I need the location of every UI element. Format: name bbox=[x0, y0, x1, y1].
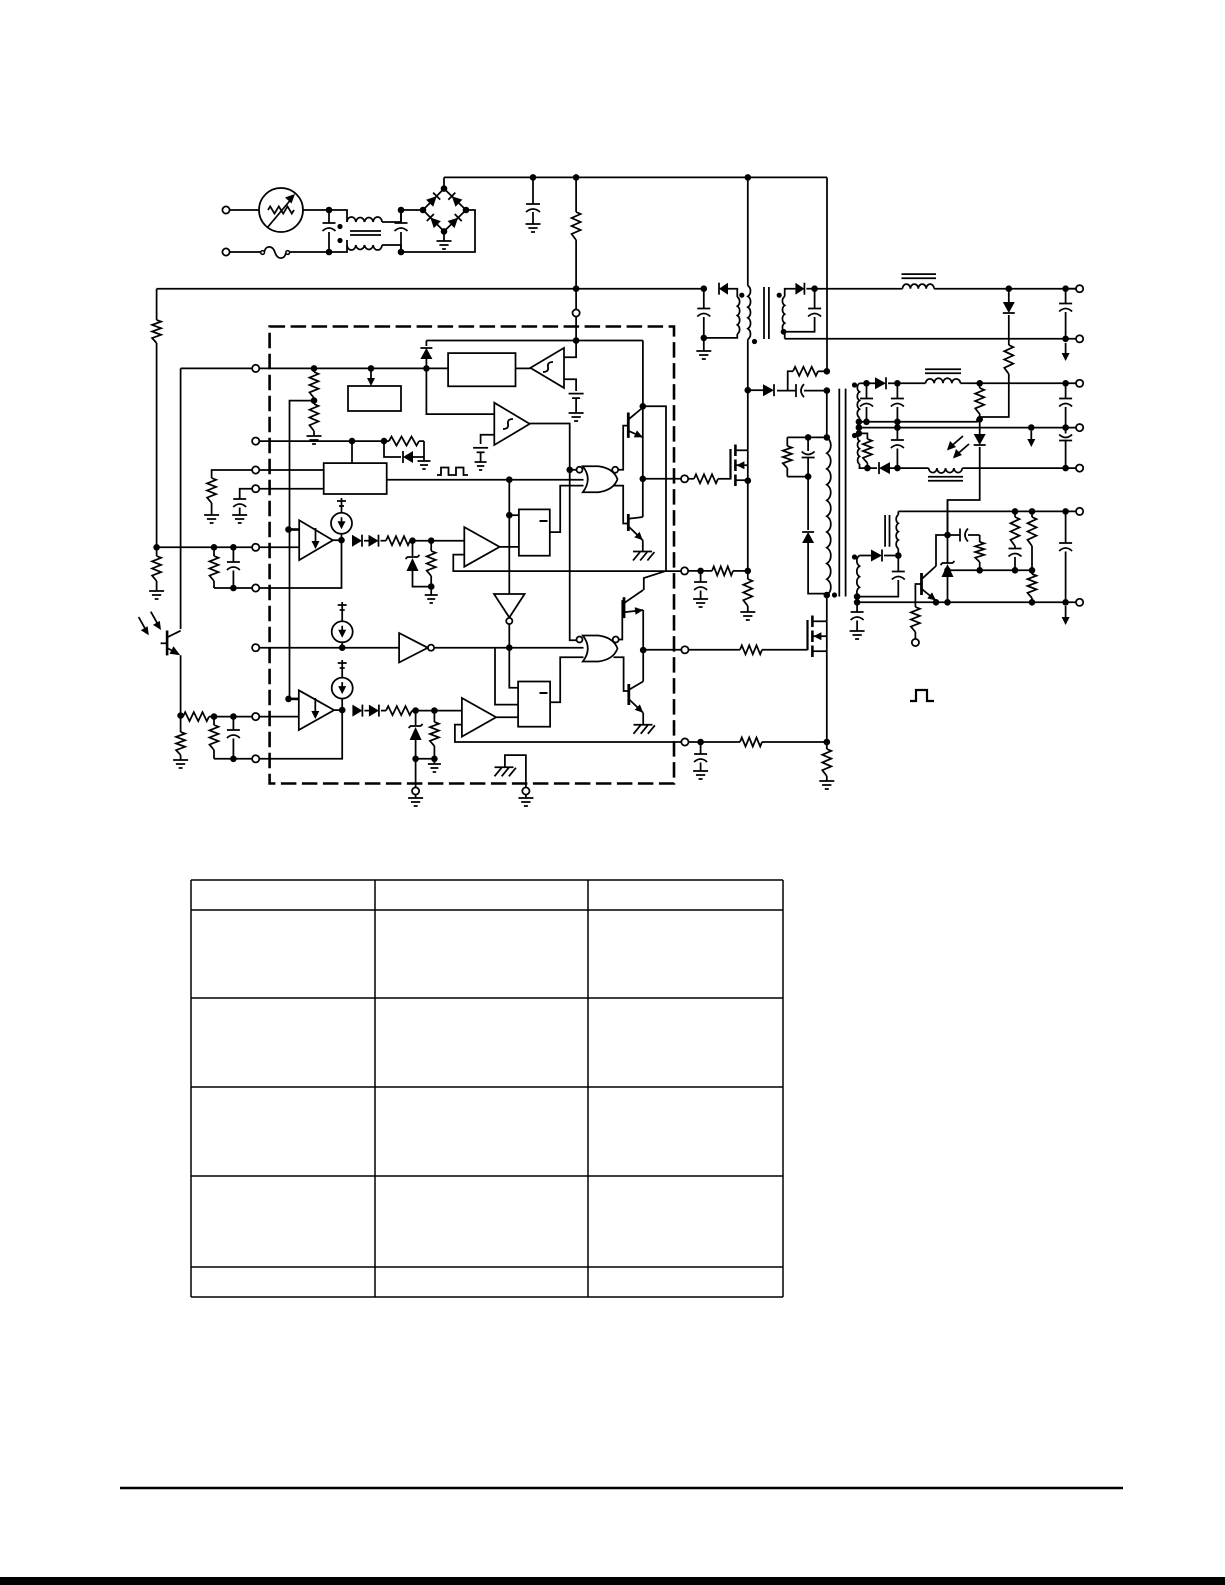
node ramp2 gnd bbox=[412, 756, 437, 763]
resistor R18 bbox=[181, 712, 214, 721]
node D11-C11 bbox=[890, 465, 901, 472]
block oscillator bbox=[324, 463, 387, 494]
wire U9 out bbox=[509, 624, 518, 687]
chassis ground symbol bbox=[495, 767, 516, 776]
transistor Q2 bbox=[628, 514, 643, 540]
MOSFET M2 bbox=[808, 595, 827, 742]
internal resistor R24 bbox=[307, 401, 322, 444]
inverter U9 bbox=[494, 594, 525, 624]
pin RT bbox=[252, 466, 259, 473]
T2 secondary winding 2 bbox=[777, 293, 787, 335]
diode D21 bbox=[364, 705, 379, 717]
zener D22 bbox=[409, 711, 423, 759]
wire fb row bbox=[948, 569, 1033, 571]
wire bottom to choke bbox=[329, 240, 347, 252]
node out3-C12 bbox=[1062, 465, 1069, 472]
node OUT2 bbox=[640, 647, 647, 654]
transistor Q3 bbox=[624, 590, 643, 618]
terminal out4+ bbox=[1076, 508, 1083, 515]
node IN2-R22 bbox=[211, 713, 218, 720]
capacitor C5 bbox=[1059, 289, 1072, 339]
wire signal gnd bracket bbox=[505, 755, 526, 787]
wire standby return rail bbox=[785, 338, 1080, 340]
gate wire M1 bbox=[688, 474, 730, 483]
terminal out3- bbox=[1076, 465, 1083, 472]
pin IN2+ bbox=[252, 713, 259, 720]
node clock-latch1 bbox=[506, 512, 513, 519]
wire IN1 line bbox=[157, 546, 253, 548]
node bus-aux bbox=[745, 174, 752, 181]
T2 primary winding bbox=[748, 177, 757, 390]
node return-C5 bbox=[1062, 336, 1069, 343]
transistor Q4 bbox=[629, 681, 643, 712]
node IN1-R21 bbox=[211, 544, 218, 551]
wire latch1 clk in bbox=[509, 514, 519, 516]
node sync-osc bbox=[349, 438, 356, 445]
node ramp2-R29 bbox=[431, 707, 438, 714]
pin SGND bbox=[522, 787, 529, 794]
wire schmitt out bbox=[530, 424, 577, 641]
bubble U13 in bbox=[577, 637, 583, 643]
node secA-C8 bbox=[863, 380, 870, 387]
varistor RV1 bbox=[259, 188, 303, 232]
clamp capacitor C7 bbox=[802, 437, 815, 476]
sense resistor R16 bbox=[819, 742, 834, 789]
standby capacitor C4 bbox=[785, 289, 821, 332]
node snubber top bbox=[824, 368, 831, 375]
pulse waveform bbox=[910, 690, 934, 701]
block UVLO bbox=[448, 353, 515, 386]
node U4 out bbox=[333, 537, 345, 544]
capacitor C11 bbox=[891, 424, 904, 468]
wire COMP1 line bbox=[214, 587, 252, 589]
resistor R9 bbox=[975, 535, 984, 574]
node opto emitter bbox=[177, 712, 184, 719]
node VIN-ref bbox=[368, 365, 375, 372]
filter capacitor C17 bbox=[850, 602, 865, 639]
wire osc top bbox=[351, 441, 353, 463]
node return-gnd bbox=[1028, 424, 1035, 431]
wire out4 rail bbox=[898, 510, 1079, 512]
wire DC bus rail bbox=[444, 176, 827, 178]
arrow into reference bbox=[367, 371, 375, 386]
schmitt trigger U3 bbox=[494, 403, 529, 445]
node enable gate1 bbox=[566, 467, 576, 474]
arrow standby return bbox=[1062, 343, 1070, 361]
wire VIN pin into IC bbox=[575, 317, 577, 341]
T1 secondary B bbox=[852, 554, 860, 598]
capacitor C8 bbox=[860, 383, 873, 420]
wire U7 out top bbox=[619, 426, 629, 470]
diode D8 bbox=[745, 384, 775, 396]
ground ramp2 bbox=[428, 759, 441, 772]
IC U1 boundary bbox=[270, 327, 674, 784]
output capacitor C16 bbox=[1059, 508, 1072, 605]
wire opto collector bbox=[180, 368, 182, 629]
startup resistor R2 bbox=[572, 177, 581, 288]
wire U11 out bbox=[496, 716, 518, 718]
LED arrows bbox=[947, 436, 969, 459]
node totem supply bbox=[640, 341, 647, 410]
wire U4 in- bbox=[259, 546, 299, 548]
wire secB bottom bbox=[854, 593, 861, 602]
ground driver2 bbox=[634, 713, 655, 734]
optocoupler transistor Q6 bbox=[161, 631, 181, 716]
wire clock down2 bbox=[508, 515, 510, 594]
capacitor C9 bbox=[891, 383, 904, 420]
node M1 source bbox=[745, 477, 752, 574]
wire out4 return rail bbox=[854, 599, 1080, 606]
bulk capacitor C2 bbox=[526, 177, 541, 232]
T1 secondary A2 bbox=[852, 433, 860, 464]
wire inv branch bbox=[495, 648, 518, 705]
inductor L6 bbox=[896, 511, 898, 555]
resistor R4 bbox=[980, 315, 1014, 419]
node R27 bottom bbox=[428, 583, 435, 590]
current source I2 bbox=[332, 602, 353, 648]
wire COMP1 internal bbox=[259, 540, 341, 588]
sense filter R15 bbox=[688, 566, 748, 575]
node VIN-divider bbox=[311, 365, 318, 372]
pin CS1 bbox=[681, 567, 688, 574]
diode D11 bbox=[879, 462, 890, 474]
inductor L3 bbox=[902, 274, 937, 289]
pin IN1+ bbox=[252, 544, 259, 551]
CS comparator U5 bbox=[464, 527, 499, 567]
ground ramp1 bbox=[425, 587, 438, 603]
node clamp top bbox=[787, 434, 830, 441]
bridge diode D3 bbox=[427, 214, 441, 228]
gate U7 bbox=[583, 466, 618, 492]
L6 core bbox=[885, 515, 889, 547]
wire COMP2 line bbox=[214, 758, 252, 760]
wire Q3 emitter bbox=[642, 610, 644, 650]
diode D5 bbox=[719, 283, 728, 295]
pin CT bbox=[252, 485, 259, 492]
bridge rectifier BR1 bbox=[420, 185, 470, 234]
bubble U13 out bbox=[613, 637, 619, 643]
optocoupler LED D12 bbox=[948, 419, 986, 535]
node clock-DT bbox=[506, 644, 513, 651]
wire VCC rail bbox=[157, 288, 704, 290]
wire SYNC line bbox=[259, 440, 384, 442]
T1 core bbox=[839, 389, 845, 597]
node snubber bottom bbox=[824, 387, 831, 394]
diode D13 bbox=[871, 550, 898, 562]
node startup-UVLO bbox=[573, 337, 580, 344]
wire varistor to X-cap bbox=[303, 209, 329, 211]
wire cap return link bbox=[859, 419, 977, 426]
diode D7 bbox=[1003, 289, 1015, 313]
reference battery B1 bbox=[569, 394, 584, 421]
footer rule bbox=[120, 1487, 1123, 1489]
node VIN-D15 bbox=[423, 365, 430, 372]
T2 core bbox=[764, 287, 769, 339]
wire standby rail bbox=[815, 288, 1080, 290]
capacitor C10 bbox=[1059, 383, 1072, 427]
resistor R28 bbox=[381, 706, 435, 715]
capacitor C14 bbox=[948, 529, 980, 542]
wire center tap bbox=[856, 418, 863, 434]
gate wire M2 bbox=[689, 645, 808, 654]
node IN2-C21 bbox=[230, 713, 237, 720]
node clamp bottom bbox=[787, 473, 811, 480]
wire CX2 to bridge bbox=[401, 209, 423, 211]
zener D19 bbox=[406, 541, 432, 587]
node R7 bottom bbox=[976, 416, 983, 423]
diode D10 bbox=[867, 377, 898, 389]
node out2-C10 bbox=[1062, 380, 1069, 387]
pin DT bbox=[252, 644, 259, 651]
divider resistor R11 bbox=[1011, 508, 1020, 548]
resistor RT external bbox=[204, 470, 252, 523]
comparator U4 bbox=[299, 520, 333, 560]
inductor L5 bbox=[928, 468, 963, 481]
node VCC-D5 bbox=[701, 285, 708, 292]
ground PGND bbox=[408, 795, 423, 806]
wire U10 in- bbox=[259, 716, 299, 718]
base resistor R10 bbox=[911, 584, 922, 639]
wire supply branch bbox=[643, 406, 666, 590]
clock waveform bbox=[437, 468, 468, 476]
wire inverter out bbox=[434, 647, 583, 649]
resistor R29 bbox=[430, 711, 439, 759]
fuse F1 bbox=[230, 247, 329, 258]
wire return rail bbox=[859, 427, 1080, 429]
T2 secondary winding 1 bbox=[737, 293, 744, 334]
wire U2 input top bbox=[564, 341, 576, 358]
wire opto chain down bbox=[947, 500, 949, 535]
zener D14 bbox=[941, 535, 955, 606]
resistor R7 bbox=[975, 383, 984, 419]
terminal out2 return bbox=[1076, 424, 1083, 431]
diode D20 bbox=[352, 705, 362, 717]
wire U2 input bottom bbox=[564, 379, 576, 391]
divider resistor R12 bbox=[1028, 508, 1037, 573]
node divider mid bbox=[311, 397, 318, 404]
node bus-C2 bbox=[530, 174, 537, 181]
bottom bar bbox=[0, 1577, 1225, 1585]
pin PGND bbox=[412, 787, 419, 794]
diode D17 bbox=[352, 535, 362, 547]
arrow out4 return bbox=[1062, 606, 1070, 625]
wire U13 out bottom bbox=[614, 657, 629, 691]
X-capacitor CX1 bbox=[323, 207, 336, 256]
wire U13 out top bbox=[619, 601, 624, 640]
wire COMP2 internal bbox=[259, 710, 342, 759]
pin OUT2 bbox=[681, 646, 688, 653]
wire bus to T1 bbox=[826, 177, 828, 371]
T1 secondary A1 bbox=[852, 382, 860, 417]
comparator U10 bbox=[299, 690, 334, 730]
pass transistor Q5 bbox=[922, 535, 948, 606]
pin COMP2 bbox=[252, 755, 259, 762]
wire schmitt ref bbox=[481, 435, 495, 444]
wire clock down bbox=[508, 480, 510, 516]
node zener-fb bbox=[944, 567, 951, 574]
wire bottom to bridge bbox=[401, 210, 475, 252]
sense filter R17 bbox=[689, 738, 827, 747]
wire to CS comparator bbox=[431, 540, 464, 542]
node ramp2 bbox=[412, 707, 419, 714]
capacitor C20 bbox=[227, 547, 240, 591]
terminal out2+ bbox=[1076, 380, 1083, 387]
current source I1 bbox=[331, 498, 352, 540]
reference battery B2 bbox=[473, 448, 488, 470]
wire secB top bbox=[860, 555, 872, 557]
node ramp1 bbox=[409, 537, 416, 544]
node standby-D7 bbox=[1006, 285, 1013, 292]
node FB divider bbox=[153, 544, 160, 551]
wire U5 out bbox=[500, 546, 519, 548]
node OUT1 bbox=[640, 476, 647, 483]
terminal out4- bbox=[1076, 599, 1083, 606]
node sense-C18 bbox=[697, 568, 704, 575]
common-mode choke L1 bbox=[337, 210, 401, 252]
resistor R26 bbox=[381, 536, 432, 545]
wire to CS comparator2 bbox=[434, 710, 462, 712]
clamp diode D9 bbox=[802, 477, 827, 594]
wire D5 to T2 secondary bbox=[728, 289, 737, 297]
block reference bbox=[348, 386, 401, 411]
arrow return ground bbox=[1027, 431, 1035, 447]
wire T1 primary top bbox=[826, 391, 828, 438]
wire ramp2 to pin bbox=[415, 759, 417, 788]
node standby-C5 bbox=[1062, 285, 1069, 292]
resistor R19 bbox=[173, 716, 188, 768]
ground bridge bbox=[437, 231, 452, 249]
node sense2-C19 bbox=[697, 739, 704, 746]
pin FB bbox=[252, 365, 259, 372]
wire T2 sec1 bottom bbox=[704, 334, 738, 338]
wire Q2 collector bbox=[642, 479, 644, 517]
sense resistor R14 bbox=[740, 571, 755, 620]
wire IN2 line bbox=[214, 716, 252, 718]
wire startup to VIN pin bbox=[575, 289, 577, 310]
pin remote-on bbox=[912, 639, 919, 646]
node standby out bbox=[806, 285, 817, 292]
T1 primary winding bbox=[824, 437, 838, 598]
pin COMP1 bbox=[252, 584, 259, 591]
wire clock line bbox=[387, 479, 584, 481]
CS comparator U11 bbox=[462, 698, 496, 737]
resistor R20 bbox=[149, 547, 164, 599]
latch U12 bbox=[518, 682, 550, 727]
filter capacitor C19 bbox=[693, 742, 708, 779]
sync resistor R25 bbox=[384, 437, 424, 446]
resistor R27 bbox=[427, 541, 436, 587]
pin OUT1 bbox=[681, 475, 688, 482]
diode D6 bbox=[795, 283, 804, 295]
node U10 out bbox=[334, 707, 345, 714]
feedback resistor R3 bbox=[152, 289, 161, 548]
node reg top bbox=[944, 532, 951, 539]
wire divider tap bbox=[290, 401, 315, 530]
wire T2 sec2 bottom bbox=[784, 332, 786, 339]
snubber capacitor C6 bbox=[777, 384, 827, 397]
wire OUT1 bbox=[643, 478, 681, 480]
ground driver1 bbox=[633, 540, 654, 560]
node IN1-C20 bbox=[230, 544, 237, 551]
ground VCC bbox=[696, 338, 711, 359]
capacitor C21 bbox=[227, 717, 240, 763]
node M2 source bbox=[824, 739, 831, 746]
wire OUT2 bbox=[643, 649, 681, 651]
wire totem mid bbox=[642, 406, 644, 479]
wire U10 in+ bbox=[285, 530, 299, 703]
resistor R21 bbox=[210, 547, 219, 588]
VCC capacitor C3 bbox=[697, 289, 710, 342]
wire FB pin bbox=[181, 367, 253, 369]
wire schmitt feed bbox=[426, 368, 494, 414]
wire U4 in+ bbox=[285, 526, 299, 533]
pin SYNC bbox=[252, 438, 259, 445]
node DT-I2 bbox=[339, 644, 346, 651]
latch U6 bbox=[519, 509, 550, 555]
sync diode D16 bbox=[384, 441, 424, 463]
node R2-VCC bbox=[573, 285, 580, 292]
X-capacitor CX2 bbox=[395, 207, 408, 256]
wire U7 out bottom bbox=[614, 486, 629, 524]
wire U5 lower in bbox=[453, 555, 684, 572]
pin CS2 bbox=[681, 738, 688, 745]
ground sync bbox=[418, 457, 431, 469]
wire CT internal bbox=[259, 488, 323, 490]
wire secA2 bottom bbox=[860, 464, 878, 468]
node sync-loop bbox=[381, 438, 388, 445]
gate U13 bbox=[583, 636, 618, 662]
wire top to choke bbox=[329, 210, 347, 222]
divider resistor R13 bbox=[1028, 570, 1037, 605]
bubble U7 out bbox=[612, 467, 618, 473]
AC line terminal L bbox=[222, 206, 259, 213]
inverter U8 bbox=[259, 633, 434, 663]
current source I3 bbox=[332, 660, 353, 710]
capacitor C15 bbox=[1009, 549, 1022, 574]
comparator U2 bbox=[516, 348, 565, 388]
wire VIN internal bbox=[259, 367, 448, 369]
wire secA2 damp bbox=[856, 430, 868, 439]
bubble U7 in bbox=[577, 467, 583, 473]
clamp resistor R6 bbox=[783, 437, 792, 476]
bridge diode D4 bbox=[448, 214, 462, 228]
transistor Q1 bbox=[628, 408, 643, 438]
capacitor CT external bbox=[232, 489, 252, 523]
diode D15 bbox=[420, 341, 432, 369]
node D10-C9 bbox=[894, 380, 901, 387]
node ramp1-R27 bbox=[428, 537, 435, 544]
filter capacitor C18 bbox=[693, 571, 708, 607]
wire U11 lower in bbox=[455, 725, 681, 742]
capacitor C13 bbox=[857, 556, 905, 597]
node clock branch bbox=[506, 476, 513, 483]
wire bridge top to rail bbox=[443, 177, 445, 188]
resistor R22 bbox=[210, 717, 219, 759]
node out2-R7 bbox=[976, 380, 983, 387]
terminal standby- bbox=[1076, 335, 1083, 342]
diode D18 bbox=[364, 535, 379, 547]
wire Q4 collector bbox=[642, 650, 644, 681]
wire latch2 out bbox=[550, 657, 583, 702]
snubber resistor R5 bbox=[788, 367, 827, 391]
wire output3 rail bbox=[897, 467, 1079, 469]
internal resistor R23 bbox=[310, 368, 319, 398]
node return-C10 bbox=[1062, 424, 1069, 431]
wire secA top bbox=[860, 382, 867, 384]
capacitor C12 bbox=[1059, 428, 1072, 469]
damping resistor R8 bbox=[863, 439, 872, 471]
ground SGND bbox=[518, 795, 533, 806]
